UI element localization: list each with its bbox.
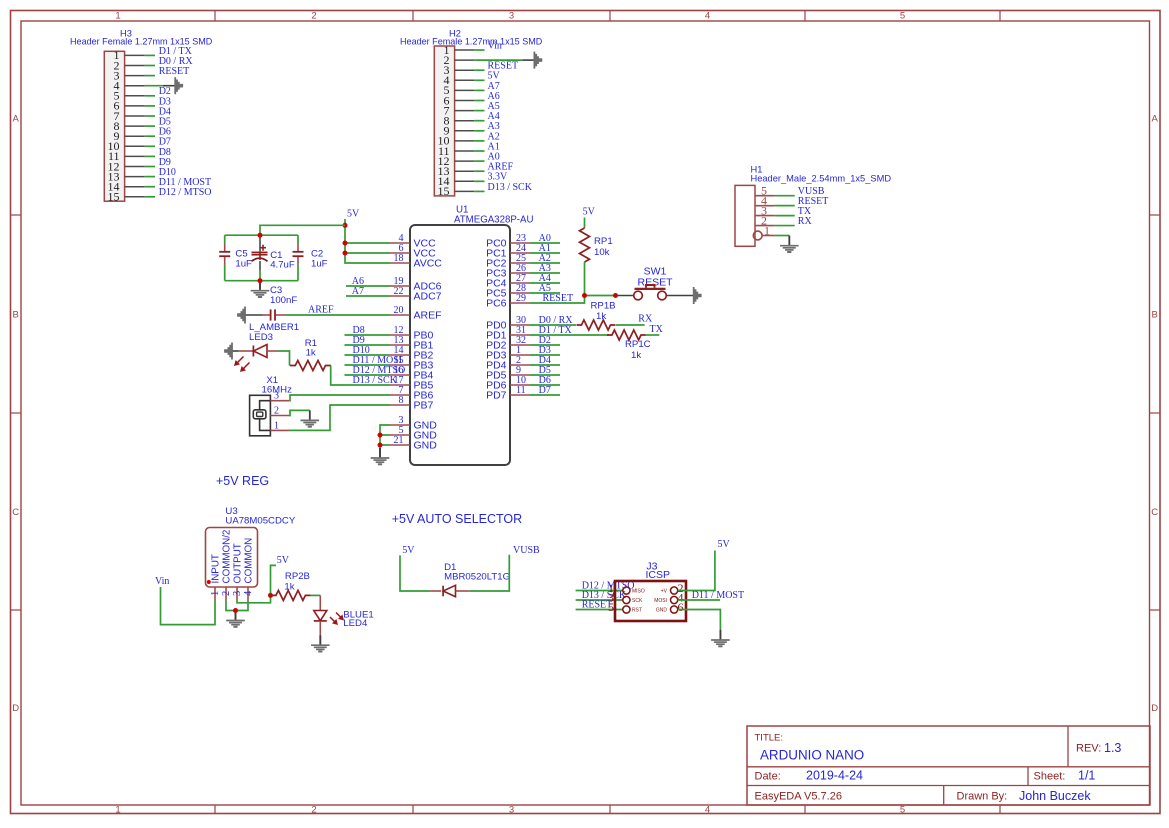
U1 pin 20 AREF — [390, 305, 442, 322]
U1 pin 11 PD7 — [486, 385, 530, 402]
svg-text:UA78M05CDCY: UA78M05CDCY — [225, 516, 295, 527]
svg-text:8: 8 — [399, 395, 404, 406]
wire — [474, 59, 522, 61]
ground — [693, 287, 702, 304]
wire — [474, 180, 484, 182]
U3 pin 1 INPUT — [210, 554, 222, 600]
svg-text:1uF: 1uF — [311, 258, 328, 269]
svg-text:5: 5 — [608, 600, 614, 614]
wire — [530, 354, 560, 356]
wire — [145, 166, 155, 168]
svg-text:D11 / MOST: D11 / MOST — [692, 590, 744, 601]
wire — [380, 444, 390, 446]
wire — [474, 89, 484, 91]
wire D1/TX — [530, 334, 609, 336]
svg-text:MOSI: MOSI — [654, 598, 667, 604]
capacitor C2 leads — [297, 235, 299, 281]
H2 pin 10 — [438, 134, 475, 148]
U1 pin 17 PB5 — [390, 375, 434, 392]
wire to ground — [259, 281, 261, 289]
H3 pin 3 — [114, 68, 145, 82]
ground — [224, 343, 233, 360]
junction — [343, 251, 348, 256]
wire — [145, 85, 163, 87]
svg-text:5V: 5V — [402, 545, 415, 556]
svg-text:SCK: SCK — [632, 598, 643, 604]
svg-text:3: 3 — [509, 11, 514, 22]
wire AREF — [286, 314, 391, 316]
wire — [145, 54, 155, 56]
svg-text:11: 11 — [516, 385, 526, 396]
wire GND pins — [380, 425, 390, 452]
wire — [530, 374, 560, 376]
wire — [400, 555, 430, 591]
svg-text:MISO: MISO — [632, 589, 645, 595]
wire cap bottom rail — [225, 280, 298, 282]
wire — [645, 334, 659, 336]
J3 pin 3 SCK — [608, 591, 643, 605]
wire — [775, 195, 795, 197]
ground — [522, 59, 533, 61]
svg-text:3: 3 — [274, 391, 279, 402]
ground — [319, 635, 321, 645]
wire crystal pin2 to ground — [289, 410, 310, 415]
svg-text:22: 22 — [394, 286, 404, 297]
wire — [584, 262, 586, 296]
svg-text:INPUT: INPUT — [211, 554, 222, 583]
wire crystal pin1 to PB7 — [289, 405, 390, 430]
junction — [258, 278, 263, 283]
H2 pin 11 — [438, 144, 474, 158]
U3 pin 3 OUTPUT — [232, 543, 244, 600]
resistor RP2B — [271, 590, 311, 600]
svg-text:15: 15 — [108, 190, 120, 204]
svg-text:B: B — [1152, 309, 1158, 320]
X1 pin 2 — [270, 406, 289, 417]
ground — [719, 630, 721, 640]
svg-text:2: 2 — [274, 406, 279, 417]
svg-text:RP1: RP1 — [594, 236, 613, 247]
U1 pin 5 GND — [390, 425, 437, 442]
H1 pin 3 — [755, 204, 775, 218]
svg-text:COMMON/2: COMMON/2 — [222, 530, 233, 584]
LED LED4 — [314, 595, 327, 635]
svg-text:1: 1 — [115, 11, 120, 22]
svg-text:OUTPUT: OUTPUT — [233, 543, 244, 583]
U1 pin 22 ADC7 — [390, 286, 442, 303]
H3 pin 10 — [108, 139, 145, 153]
wire — [474, 49, 484, 51]
svg-text:5V: 5V — [347, 209, 360, 220]
capacitor C1 polarized — [252, 245, 268, 262]
wire — [530, 262, 560, 264]
svg-text:1uF: 1uF — [235, 258, 252, 269]
wire — [576, 609, 623, 611]
op-amp U1 body — [410, 225, 510, 465]
wire — [331, 366, 345, 386]
wire — [530, 252, 560, 254]
svg-text:D12 / MTSO: D12 / MTSO — [159, 187, 212, 198]
wire — [474, 190, 484, 192]
wire — [145, 145, 155, 147]
svg-text:D13 / SCK: D13 / SCK — [488, 182, 533, 193]
wire — [576, 599, 623, 601]
H1 pin 4 — [755, 194, 775, 208]
wire — [346, 295, 390, 297]
svg-text:ATMEGA328P-AU: ATMEGA328P-AU — [454, 214, 534, 225]
svg-text:ARDUNIO NANO: ARDUNIO NANO — [760, 748, 864, 763]
svg-text:4: 4 — [705, 11, 710, 22]
svg-text:6: 6 — [678, 600, 684, 614]
svg-text:AREF: AREF — [414, 310, 442, 322]
H2 pin 12 — [438, 154, 475, 168]
X1 pin 1 — [270, 420, 289, 431]
wire VCC pin6 — [345, 252, 390, 254]
svg-text:D: D — [1151, 703, 1158, 714]
U1 pin 16 PB4 — [390, 365, 434, 382]
svg-text:RP1C: RP1C — [625, 339, 651, 350]
U1 pin 8 PB7 — [390, 395, 434, 412]
ground — [237, 307, 246, 324]
H1 pin 1 — [753, 224, 774, 240]
H3 pin 13 — [108, 169, 145, 183]
U1 pin 32 PD2 — [486, 335, 530, 352]
wire — [346, 285, 390, 287]
svg-text:21: 21 — [394, 435, 404, 446]
U1 pin 2 PD4 — [486, 355, 530, 372]
svg-text:1/1: 1/1 — [1078, 769, 1095, 783]
wire — [585, 295, 616, 297]
U1 pin 21 GND — [390, 435, 437, 452]
svg-text:D1 / TX: D1 / TX — [539, 325, 573, 336]
wire — [474, 150, 484, 152]
svg-text:AREF: AREF — [308, 304, 334, 315]
svg-text:A: A — [1152, 113, 1159, 124]
capacitor C2 — [293, 252, 304, 256]
wire — [775, 205, 795, 207]
LED4 light arrows — [330, 613, 344, 626]
wire RESET net — [530, 296, 585, 304]
wire — [474, 140, 484, 142]
LED LED3 — [239, 345, 277, 358]
svg-text:4: 4 — [705, 805, 710, 816]
svg-text:1: 1 — [274, 420, 279, 431]
svg-text:GND: GND — [414, 440, 438, 452]
resistor RP1 — [580, 228, 590, 262]
wire — [530, 292, 560, 294]
connector H2 body — [434, 46, 454, 196]
U1 pin 27 PC4 — [486, 273, 530, 290]
wire — [474, 100, 484, 102]
wire VCC pin4 — [345, 242, 390, 244]
svg-text:D7: D7 — [539, 385, 551, 396]
svg-text:2: 2 — [221, 591, 232, 596]
J3 pin 2 +V — [661, 581, 684, 595]
junction — [378, 443, 383, 448]
U1 pin 9 PD5 — [486, 365, 530, 382]
svg-text:RESET: RESET — [543, 293, 574, 304]
resistor RP1C — [607, 330, 646, 340]
J3 pin 1 MISO — [608, 581, 645, 595]
svg-text:1: 1 — [115, 805, 120, 816]
connector J3 body — [615, 581, 686, 621]
svg-text:3: 3 — [232, 591, 243, 596]
H3 pin 14 — [108, 180, 145, 194]
wire J3 GND — [678, 610, 721, 630]
wire — [775, 225, 795, 227]
svg-text:5V: 5V — [583, 207, 596, 218]
crystal X1 — [250, 395, 271, 436]
J3 pin 5 RST — [608, 600, 642, 614]
wire — [584, 218, 586, 229]
H3 pin 2 — [114, 58, 145, 72]
H1 pin 2 — [755, 214, 775, 228]
U1 pin 24 PC1 — [486, 243, 530, 260]
H3 pin 1 — [114, 48, 145, 62]
H2 pin 2 — [444, 53, 475, 67]
wire 5V to cap rail — [260, 225, 345, 235]
H2 pin 8 — [444, 114, 475, 128]
svg-text:VUSB: VUSB — [513, 545, 540, 556]
wire — [345, 354, 391, 356]
svg-text:5: 5 — [900, 805, 905, 816]
capacitor C5 — [219, 252, 230, 256]
wire D0/RX — [530, 324, 576, 326]
H2 pin 6 — [444, 93, 475, 107]
capacitor C1 leads — [259, 235, 261, 281]
resistor RP1B — [577, 320, 616, 330]
wire — [474, 160, 484, 162]
wire — [145, 125, 155, 127]
wire — [530, 394, 560, 396]
wire — [474, 110, 484, 112]
wire J3 MOSI — [678, 599, 720, 601]
wire — [345, 374, 391, 376]
svg-text:2: 2 — [311, 11, 316, 22]
U1 pin 26 PC3 — [486, 263, 530, 280]
H3 pin 8 — [114, 119, 145, 133]
wire — [530, 364, 560, 366]
U3 pin 2 COMMON/2 — [221, 530, 233, 601]
connector H3 body — [104, 51, 124, 201]
wire — [277, 351, 290, 366]
U3 pin 4 COMMON — [243, 538, 255, 601]
svg-text:29: 29 — [516, 293, 526, 304]
wire — [145, 176, 155, 178]
junction — [343, 223, 348, 228]
wire — [345, 364, 391, 366]
U1 pin 3 GND — [390, 415, 437, 432]
U1 pin 28 PC5 — [486, 283, 530, 300]
wire U3 output to 5V — [237, 565, 276, 602]
wire — [616, 295, 634, 297]
U1 pin 14 PB2 — [390, 345, 434, 362]
wire — [145, 196, 155, 198]
svg-text:RST: RST — [632, 608, 642, 614]
H2 pin 1 — [444, 43, 475, 57]
svg-text:10k: 10k — [594, 247, 610, 258]
H3 pin 15 — [108, 190, 145, 204]
junction — [378, 433, 383, 438]
svg-text:ICSP: ICSP — [646, 569, 671, 581]
switch SW1 — [634, 285, 667, 300]
H3 pin 7 — [114, 109, 145, 123]
wire — [474, 120, 484, 122]
H1 pin 5 — [755, 184, 775, 198]
wire — [775, 235, 790, 237]
U3 pin1 marker — [207, 580, 211, 584]
svg-text:Vin: Vin — [488, 40, 502, 51]
junction — [613, 293, 618, 298]
junction — [268, 593, 273, 598]
wire — [775, 215, 795, 217]
junction — [258, 233, 263, 238]
wire — [311, 594, 321, 596]
resistor R1 — [290, 361, 331, 371]
wire — [530, 272, 560, 274]
H3 pin 4 — [114, 79, 145, 93]
H3 pin 12 — [108, 159, 145, 173]
svg-text:GND: GND — [656, 608, 668, 614]
wire — [145, 65, 155, 67]
wire — [145, 115, 155, 117]
ground — [235, 611, 237, 621]
svg-text:1: 1 — [210, 591, 221, 596]
svg-text:+5V REG: +5V REG — [216, 474, 269, 488]
ground — [301, 410, 320, 426]
svg-text:5: 5 — [900, 11, 905, 22]
U1 pin 4 VCC — [390, 233, 436, 250]
wire crystal pin3 to PB6 — [289, 395, 390, 401]
svg-text:TX: TX — [650, 324, 664, 335]
svg-text:100nF: 100nF — [270, 295, 297, 306]
U1 pin 6 VCC — [390, 243, 436, 260]
U1 pin 19 ADC6 — [390, 276, 442, 293]
ground — [251, 281, 270, 297]
U1 pin 29 PC6 — [486, 293, 530, 310]
J3 pin 6 GND — [656, 600, 684, 614]
svg-text:PB7: PB7 — [414, 400, 434, 412]
svg-text:LED4: LED4 — [343, 618, 368, 629]
svg-text:EasyEDA V5.7.26: EasyEDA V5.7.26 — [755, 791, 842, 803]
svg-text:C: C — [12, 507, 19, 518]
svg-text:20: 20 — [394, 305, 404, 316]
svg-text:Date:: Date: — [755, 771, 781, 783]
H2 pin 13 — [438, 164, 475, 178]
U1 pin 13 PB1 — [390, 335, 434, 352]
wire 5V vertical to VCC — [345, 219, 390, 263]
wire — [345, 334, 391, 336]
svg-text:AVCC: AVCC — [414, 258, 443, 270]
svg-text:18: 18 — [394, 253, 404, 264]
wire — [530, 384, 560, 386]
svg-text:5V: 5V — [718, 539, 731, 550]
svg-text:B: B — [13, 309, 19, 320]
H2 pin 9 — [444, 124, 475, 138]
svg-text:2019-4-24: 2019-4-24 — [806, 769, 863, 783]
U1 pin 30 PD0 — [486, 315, 530, 332]
wire U3 commons to ground — [226, 601, 248, 611]
svg-text:4.7uF: 4.7uF — [270, 259, 295, 270]
wire — [474, 130, 484, 132]
svg-text:1k: 1k — [284, 582, 294, 593]
wire — [380, 434, 390, 436]
svg-text:15: 15 — [438, 184, 450, 198]
wire — [145, 105, 155, 107]
U1 pin 15 PB3 — [390, 355, 434, 372]
wire — [530, 344, 560, 346]
svg-text:3: 3 — [509, 805, 514, 816]
H3 pin 6 — [114, 99, 145, 113]
svg-text:D13 / SCK: D13 / SCK — [353, 375, 398, 386]
ground — [788, 236, 790, 245]
wire cap top rail — [225, 234, 298, 236]
svg-text:Header Female 1.27mm 1x15 SMD: Header Female 1.27mm 1x15 SMD — [400, 37, 543, 47]
wire — [145, 155, 155, 157]
svg-text:1k: 1k — [631, 350, 641, 361]
svg-text:TITLE:: TITLE: — [755, 733, 784, 744]
wire — [474, 69, 484, 71]
diode D1 — [430, 585, 469, 596]
junction — [343, 241, 348, 246]
svg-text:COMMON: COMMON — [244, 538, 255, 584]
svg-text:RX: RX — [798, 216, 813, 227]
connector H1 body — [735, 185, 755, 246]
wire D13/SCK — [345, 384, 391, 386]
H2 pin 14 — [438, 174, 475, 188]
regulator U3 body — [206, 528, 258, 588]
svg-text:Sheet:: Sheet: — [1034, 771, 1066, 783]
svg-text:A7: A7 — [352, 286, 364, 297]
U1 pin 23 PC0 — [486, 233, 530, 250]
svg-text:D: D — [12, 703, 19, 714]
ground — [379, 448, 381, 458]
svg-text:+5V AUTO SELECTOR: +5V AUTO SELECTOR — [392, 512, 523, 526]
wire — [666, 295, 693, 297]
svg-text:LED3: LED3 — [249, 332, 273, 343]
svg-text:5V: 5V — [277, 555, 290, 566]
svg-text:John Buczek: John Buczek — [1019, 789, 1091, 803]
U1 pin 25 PC2 — [486, 253, 530, 270]
H2 pin 7 — [444, 103, 475, 117]
U1 pin 1 PD3 — [486, 345, 530, 362]
U1 pin 31 PD1 — [486, 325, 530, 342]
svg-text:A: A — [13, 113, 20, 124]
svg-text:C: C — [1151, 507, 1158, 518]
svg-text:REV:: REV: — [1076, 743, 1101, 755]
J3 pin 4 MOSI — [654, 591, 683, 605]
U1 pin 7 PB6 — [390, 385, 434, 402]
wire Vin to U3 input — [161, 587, 216, 625]
wire — [345, 344, 391, 346]
svg-text:1.3: 1.3 — [1104, 741, 1121, 755]
H3 pin 11 — [108, 149, 145, 163]
wire — [145, 75, 155, 77]
svg-text:2: 2 — [311, 805, 316, 816]
svg-text:ADC7: ADC7 — [414, 291, 442, 303]
junction — [582, 293, 587, 298]
svg-text:+V: +V — [661, 589, 668, 595]
svg-text:RP2B: RP2B — [285, 571, 310, 582]
wire — [145, 135, 155, 137]
H3 pin 9 — [114, 129, 145, 143]
junction — [233, 608, 238, 613]
H2 pin 5 — [444, 83, 475, 97]
H2 pin 4 — [444, 73, 475, 87]
U1 pin 12 PB0 — [390, 325, 434, 342]
svg-text:Vin: Vin — [155, 576, 169, 587]
X1 pin 3 — [270, 391, 289, 402]
